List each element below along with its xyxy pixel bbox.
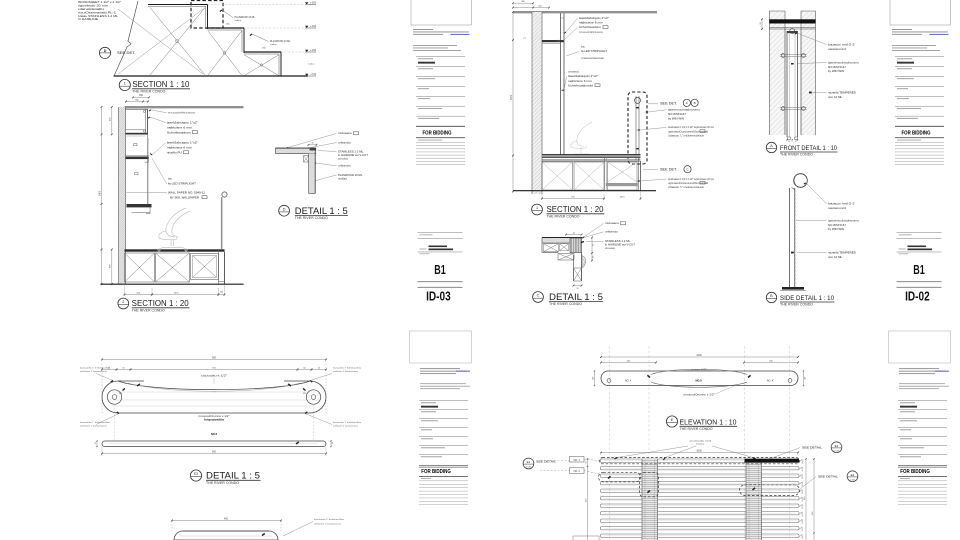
svg-text:E4: E4 xyxy=(851,473,855,477)
wall section outer dim line xyxy=(101,107,103,284)
side detail title xyxy=(766,292,776,302)
front detail glass mark xyxy=(791,63,794,65)
svg-text:lw LED STRIPLIGHT: lw LED STRIPLIGHT xyxy=(581,49,607,53)
svg-text:FOR BIDDING: FOR BIDDING xyxy=(423,131,452,137)
svg-text:by WIN WIN: by WIN WIN xyxy=(668,116,684,120)
elevation dim 450 left xyxy=(601,362,656,364)
svg-text:in HAIRLINE wu V-CUT: in HAIRLINE wu V-CUT xyxy=(605,243,635,247)
detail C step xyxy=(558,254,574,261)
svg-text:NO.WST2147: NO.WST2147 xyxy=(828,223,847,227)
desk top xyxy=(125,249,225,251)
svg-text:laseliJabciquiu 1"x2": laseliJabciquiu 1"x2" xyxy=(579,16,609,20)
title block company lines xyxy=(420,367,460,370)
svg-text:luunuairhn 1' rhnlrituaciSou: luunuairhn 1' rhnlrituaciSou xyxy=(333,367,362,370)
stair tread 3 xyxy=(244,51,281,53)
svg-text:1: 1 xyxy=(536,206,538,210)
svg-text:100: 100 xyxy=(804,377,806,380)
svg-text:luunuairhn 1' rhnlrituaciSou: luunuairhn 1' rhnlrituaciSou xyxy=(314,518,345,521)
louvre post left xyxy=(642,459,658,540)
detail D 30 dim xyxy=(309,144,317,146)
title block consultant fields xyxy=(416,55,465,58)
stair riser 1 xyxy=(205,6,207,28)
svg-text:wuulnsaxan 1 1/2"x 2 1/2" neju: wuulnsaxan 1 1/2"x 2 1/2" nejusnciuacc 2… xyxy=(668,179,714,181)
front detail glass gap xyxy=(784,29,786,135)
title block sheet frame box xyxy=(890,0,951,25)
svg-text:NO. 2: NO. 2 xyxy=(574,470,581,473)
svg-text:450: 450 xyxy=(224,517,229,520)
section2 bench cabinet right xyxy=(608,162,638,190)
detail D title xyxy=(279,205,290,216)
svg-text:FOR BIDDING: FOR BIDDING xyxy=(421,469,451,475)
svg-text:THE RIVER CONDO: THE RIVER CONDO xyxy=(680,427,713,431)
title block company lines xyxy=(899,367,939,370)
svg-text:aniSuann 1 luanoinuuzuu: aniSuann 1 luanoinuuzuu xyxy=(80,371,108,373)
svg-text:tjasnenuciniadnusznu: tjasnenuciniadnusznu xyxy=(668,109,701,112)
svg-text:cicuuciau s 1/2": cicuuciau s 1/2" xyxy=(201,374,227,377)
svg-text:Uciaauciu "L" nnuluwenuuleuuln: Uciaauciu "L" nnuluwenuuleuuln xyxy=(668,136,705,138)
svg-text:2400: 2400 xyxy=(99,190,101,196)
section2 mirror panel xyxy=(560,13,562,155)
svg-text:THE RIVER CONDO: THE RIVER CONDO xyxy=(547,214,580,218)
detail C slab x-boxes xyxy=(544,244,559,252)
louvre dashed box slat1 xyxy=(600,458,800,464)
svg-text:nnwuuwsaunsau: nnwuuwsaunsau xyxy=(581,57,605,60)
bench curve arrows xyxy=(137,384,140,386)
svg-text:cnuuuu: cnuuuu xyxy=(605,247,616,250)
svg-text:50: 50 xyxy=(585,462,587,464)
louvre post right xyxy=(746,459,762,540)
under-desk cabinet right xyxy=(191,254,219,280)
svg-text:tiau: tiau xyxy=(581,46,586,49)
svg-text:SECTION 1 : 20: SECTION 1 : 20 xyxy=(547,205,605,214)
title block note lines xyxy=(413,44,457,47)
svg-text:D: D xyxy=(104,49,107,53)
wall section floor line xyxy=(101,283,244,285)
front detail fitting upper xyxy=(781,54,785,58)
svg-text:nejlrtcisne 6 mm: nejlrtcisne 6 mm xyxy=(167,146,193,150)
louvre dashed oval right xyxy=(740,485,800,496)
svg-text:by WIN WIN: by WIN WIN xyxy=(828,227,844,231)
svg-text:urikanciu: urikanciu xyxy=(338,165,352,168)
svg-text:SEE DET.: SEE DET. xyxy=(660,102,677,106)
louvre black bar xyxy=(745,459,800,463)
detail C stainless arrow xyxy=(581,242,584,243)
section2 desk chair outline xyxy=(571,122,592,154)
svg-text:(2-06): (2-06) xyxy=(834,450,840,452)
drawing title bars xyxy=(429,246,448,248)
svg-text:SEE DETAIL: SEE DETAIL xyxy=(536,459,557,463)
detail D top bar xyxy=(276,148,317,154)
svg-text:C: C xyxy=(537,294,540,298)
svg-text:laseliJabciquiu 1"x2": laseliJabciquiu 1"x2" xyxy=(568,74,598,78)
under-desk cabinet left xyxy=(125,253,155,282)
svg-text:NO.WST2147: NO.WST2147 xyxy=(828,65,847,69)
svg-text:STAINLESS 1.2 ML.: STAINLESS 1.2 ML. xyxy=(338,149,364,153)
svg-text:nouiOsanvanald PL-1: nouiOsanvanald PL-1 xyxy=(78,10,117,14)
svg-text:900: 900 xyxy=(212,356,217,359)
svg-text:aniSuann 1 luanoinuuzuu: aniSuann 1 luanoinuuzuu xyxy=(80,426,108,428)
wall section ceiling line xyxy=(125,106,244,108)
lower shelf xyxy=(127,204,152,207)
svg-text:DETAIL 1 : 5: DETAIL 1 : 5 xyxy=(206,471,260,481)
svg-text:B1: B1 xyxy=(913,262,925,277)
louvre left dim xyxy=(587,459,589,540)
svg-text:1: 1 xyxy=(124,82,126,86)
revisions box xyxy=(421,477,431,480)
front detail left dim xyxy=(761,19,763,29)
detail C lower strip xyxy=(573,255,575,281)
svg-text:+ 600: + 600 xyxy=(310,1,317,4)
front detail fitting lower xyxy=(781,107,785,111)
detail C 40 dim xyxy=(566,234,582,236)
drawing title bars xyxy=(908,246,927,248)
svg-text:uruwuu: uruwuu xyxy=(568,71,580,74)
svg-text:BY MOI. WALLPAPER: BY MOI. WALLPAPER xyxy=(170,195,199,199)
svg-text:NO. 1: NO. 1 xyxy=(574,459,581,462)
svg-text:lw LED STRIPLIGHT: lw LED STRIPLIGHT xyxy=(168,182,196,186)
svg-text:laseliJabciquiu 1"x2": laseliJabciquiu 1"x2" xyxy=(167,141,198,145)
svg-text:ulanoktuiafiu: ulanoktuiafiu xyxy=(78,7,105,11)
svg-text:urikanciu: urikanciu xyxy=(605,231,619,234)
svg-text:THE RIVER CONDO: THE RIVER CONDO xyxy=(780,303,813,307)
svg-text:D: D xyxy=(283,207,286,211)
svg-text:lsiqsuuwliiu: lsiqsuuwliiu xyxy=(204,419,225,422)
elevation title xyxy=(666,416,677,427)
title block company lines xyxy=(413,28,433,31)
section2 bench cabinet mid xyxy=(574,162,604,190)
title block sheet frame box xyxy=(410,331,472,363)
svg-text:B1: B1 xyxy=(434,262,446,277)
side detail post xyxy=(789,188,791,287)
wall section inner dim line xyxy=(111,107,113,134)
section2 left dim line xyxy=(512,12,514,192)
svg-text:STAINLESS 1.2 ML.: STAINLESS 1.2 ML. xyxy=(605,239,631,243)
svg-text:SEE DET.: SEE DET. xyxy=(660,168,677,172)
section2 bench top xyxy=(542,155,641,157)
svg-text:ID-03: ID-03 xyxy=(426,290,451,304)
title block consultant fields xyxy=(419,399,468,402)
title block note lines xyxy=(892,44,936,47)
stair break line xyxy=(114,1,138,76)
bench bar side dims xyxy=(96,441,98,447)
svg-text:luiuaucc nnd O 2': luiuaucc nnd O 2' xyxy=(828,42,856,46)
front detail right wall xyxy=(801,11,816,135)
svg-text:FRONT DETAIL 1 : 10: FRONT DETAIL 1 : 10 xyxy=(780,145,837,152)
front detail left wall xyxy=(769,11,785,135)
level marker +400 xyxy=(305,26,308,28)
svg-text:25: 25 xyxy=(95,442,97,444)
elevation dim 450 right xyxy=(744,362,798,364)
louvre bottom-left box xyxy=(573,536,599,540)
wall hatched strip xyxy=(119,107,126,284)
svg-text:tjasnenuciniadnusznu: tjasnenuciniadnusznu xyxy=(828,61,860,64)
FOR BIDDING stamp xyxy=(419,464,468,467)
elevation bar body xyxy=(601,371,798,386)
revisions box xyxy=(897,140,921,141)
detail D small block xyxy=(304,156,309,162)
svg-text:E: E xyxy=(671,418,674,422)
svg-text:nutnci 1/2": nutnci 1/2" xyxy=(691,368,707,371)
bench sag curves xyxy=(118,381,310,390)
FOR BIDDING stamp xyxy=(898,464,947,467)
title block sheet frame box xyxy=(889,331,951,363)
elevation dashed projection lines xyxy=(609,346,611,540)
bench grain lines xyxy=(108,392,320,406)
svg-text:A: A xyxy=(686,101,688,105)
svg-text:NO.8: NO.8 xyxy=(695,379,702,383)
cabinet right edge xyxy=(218,250,220,285)
svg-text:nudiao: nudiao xyxy=(270,44,277,46)
bench end projection dashes xyxy=(114,404,116,441)
svg-text:Uchxrliouadcnn: Uchxrliouadcnn xyxy=(579,25,602,29)
elevation curve arrows xyxy=(647,375,650,377)
svg-text:in HAIRLINE: in HAIRLINE xyxy=(78,17,98,21)
office chair outline xyxy=(158,208,190,251)
svg-text:B: B xyxy=(694,101,696,105)
svg-text:nsdoaane: nsdoaane xyxy=(605,222,620,225)
lower bar 450 dim xyxy=(172,520,281,522)
svg-text:25: 25 xyxy=(332,442,334,444)
svg-text:nszanla TEMPERED: nszanla TEMPERED xyxy=(828,90,856,94)
svg-text:nejlrtcisne 6 mm: nejlrtcisne 6 mm xyxy=(568,79,592,83)
svg-text:PLASWOOD 10 ML.: PLASWOOD 10 ML. xyxy=(338,173,363,177)
svg-text:FOR BIDDING: FOR BIDDING xyxy=(902,131,931,137)
svg-text:50: 50 xyxy=(760,22,762,24)
svg-text:cnuuuu: cnuuuu xyxy=(338,157,349,160)
svg-text:900: 900 xyxy=(212,450,217,453)
svg-text:unutnaalu nnd: unutnaalu nnd xyxy=(689,439,712,442)
revisions box xyxy=(418,140,442,141)
svg-text:tiau: tiau xyxy=(168,177,173,180)
roller blind xyxy=(222,192,227,197)
svg-text:THE RIVER CONDO: THE RIVER CONDO xyxy=(295,216,328,220)
svg-text:wuulnsaxan 1 1/2"x 2 1/2" neju: wuulnsaxan 1 1/2"x 2 1/2" nejusnciuacc 2… xyxy=(668,127,714,129)
stair ground line xyxy=(114,75,308,77)
svg-text:PLASWOOD 10 ML.: PLASWOOD 10 ML. xyxy=(270,40,291,43)
level marker zero xyxy=(305,74,308,76)
middle shelf xyxy=(126,157,149,160)
wall section top dims xyxy=(126,101,148,103)
svg-text:- 0.00: - 0.00 xyxy=(310,73,317,76)
svg-text:rnuuuinlrtriusou: rnuuuinlrtriusou xyxy=(168,112,196,115)
section2 dashed callout xyxy=(628,92,647,164)
title block note lines xyxy=(899,382,945,385)
louvre dashed box mid xyxy=(640,472,659,497)
stair tread 2 xyxy=(208,27,245,29)
section2 top shelf xyxy=(542,40,564,42)
svg-text:FOR BIDDING: FOR BIDDING xyxy=(900,469,930,475)
stair detail callout dashed box xyxy=(191,1,223,29)
svg-text:nudiao: nudiao xyxy=(308,64,315,66)
svg-text:1670: 1670 xyxy=(174,292,180,294)
svg-text:Uchxrliouadcnn: Uchxrliouadcnn xyxy=(167,130,192,134)
svg-text:nun 12 ML.: nun 12 ML. xyxy=(828,95,843,99)
svg-text:uaulasnunnd: uaulasnunnd xyxy=(828,47,847,51)
side detail handrail circle xyxy=(794,174,808,188)
svg-text:NO. 4: NO. 4 xyxy=(767,379,774,382)
see detail D marker xyxy=(99,47,110,58)
detail D leader lines xyxy=(288,133,337,147)
under-desk cabinet mid xyxy=(156,253,190,282)
project number field xyxy=(418,231,463,234)
level marker +600 xyxy=(305,2,308,4)
svg-text:NO. 4: NO. 4 xyxy=(625,379,632,382)
section2 wall hatched strip xyxy=(532,12,542,194)
svg-text:nudiao: nudiao xyxy=(338,177,348,180)
svg-text:SIDE DETAIL 1 : 10: SIDE DETAIL 1 : 10 xyxy=(780,295,834,302)
bench bottom bar xyxy=(102,441,326,447)
svg-text:E1: E1 xyxy=(527,460,531,464)
louvre dashed oval left xyxy=(599,472,641,482)
svg-text:(2-06): (2-06) xyxy=(526,467,532,469)
svg-text:rnsuuuuiOnonnu s 1/2": rnsuuuuiOnonnu s 1/2" xyxy=(684,394,715,397)
stair level projection lines xyxy=(208,4,305,6)
svg-text:nun 12 ML.: nun 12 ML. xyxy=(828,255,843,259)
stair cross bracing left panel xyxy=(150,8,205,76)
section2 floor line xyxy=(513,190,656,192)
svg-text:uaulasnunnd: uaulasnunnd xyxy=(828,206,847,210)
svg-text:THE RIVER CONDO: THE RIVER CONDO xyxy=(132,90,165,94)
louvre right dims xyxy=(805,459,807,540)
svg-text:SECTION 1 : 20: SECTION 1 : 20 xyxy=(132,299,190,308)
svg-text:nsdoaane: nsdoaane xyxy=(338,132,353,135)
svg-text:NO.6: NO.6 xyxy=(211,432,218,436)
bench end circle right xyxy=(306,390,320,404)
svg-text:in HAIRLINE wu V-CUT: in HAIRLINE wu V-CUT xyxy=(338,153,368,157)
bench detail top dim 900 xyxy=(101,362,103,413)
project number field xyxy=(897,231,942,234)
svg-text:SECTION 1 : 10: SECTION 1 : 10 xyxy=(132,80,190,89)
stair cross bracing low panel xyxy=(245,55,279,76)
front detail title xyxy=(766,142,776,152)
louvre top dim 1600 xyxy=(601,452,798,454)
svg-text:2: 2 xyxy=(122,300,124,304)
detail C slab xyxy=(542,238,582,244)
bench end circle left xyxy=(107,390,121,404)
sheet number rules xyxy=(418,280,463,283)
stair cross bracing mid panel xyxy=(208,31,242,75)
stair riser 2 xyxy=(241,30,243,52)
svg-text:luiuaucc nnd O 2': luiuaucc nnd O 2' xyxy=(828,201,856,205)
svg-text:1600: 1600 xyxy=(696,354,702,357)
svg-text:360: 360 xyxy=(139,94,144,97)
title block sheet frame box xyxy=(411,0,472,25)
section2 title xyxy=(532,204,543,215)
svg-text:PLASWOOD 10 ML.: PLASWOOD 10 ML. xyxy=(235,16,256,19)
detail D vertical bar xyxy=(309,154,316,194)
svg-text:E3: E3 xyxy=(835,444,839,448)
svg-text:THE RIVER CONDO: THE RIVER CONDO xyxy=(206,481,239,485)
material tag K5 lower xyxy=(135,173,138,175)
svg-text:SEE DETAIL: SEE DETAIL xyxy=(802,445,823,449)
section 1-10 title xyxy=(119,79,130,90)
stair riser 3 xyxy=(278,54,280,76)
section2 bottom dims xyxy=(541,192,543,200)
svg-text:nejlrtcisne 6 mm: nejlrtcisne 6 mm xyxy=(579,21,603,25)
revisions box xyxy=(900,477,910,480)
svg-text:DETAIL 1 : 5: DETAIL 1 : 5 xyxy=(549,292,603,302)
section2 bench cabinet left xyxy=(542,162,573,190)
detail C title xyxy=(533,292,544,303)
front detail top black bar xyxy=(770,19,816,23)
level marker +200 xyxy=(305,50,308,52)
svg-text:luunuairhn 1' rhnlrituaciSou: luunuairhn 1' rhnlrituaciSou xyxy=(80,421,111,424)
svg-text:THE RIVER CONDO: THE RIVER CONDO xyxy=(132,308,165,312)
side detail glass ticks xyxy=(795,190,797,284)
bench bottom dim 900 xyxy=(101,447,103,457)
elevation side dims xyxy=(594,371,596,386)
svg-text:s: s xyxy=(214,392,215,394)
louvre right hooks xyxy=(800,459,803,539)
svg-text:(2-06): (2-06) xyxy=(850,479,856,481)
svg-text:aniSuann 1 luanoinuuzuu: aniSuann 1 luanoinuuzuu xyxy=(333,371,359,373)
front detail center post xyxy=(786,31,788,137)
svg-text:nudiao: nudiao xyxy=(235,20,242,22)
detail C right dims xyxy=(591,238,593,254)
svg-text:25: 25 xyxy=(795,141,797,143)
cabinet front vertical line xyxy=(147,135,149,205)
louvre slats xyxy=(601,459,800,537)
svg-text:25: 25 xyxy=(788,141,790,143)
louvre arrows xyxy=(608,476,611,478)
title block consultant fields xyxy=(895,55,944,58)
svg-text:aniSuann 1 luanoinuuzuu: aniSuann 1 luanoinuuzuu xyxy=(333,426,359,428)
svg-text:+ 400: + 400 xyxy=(310,25,317,28)
svg-text:WALL PAPER NO. 5949-11: WALL PAPER NO. 5949-11 xyxy=(168,190,206,194)
bench detail title xyxy=(190,470,201,481)
svg-text:Uciaauciu "L" nnuluwenuuleuuln: Uciaauciu "L" nnuluwenuuleuuln xyxy=(668,187,705,189)
section 1-20 title xyxy=(118,298,129,309)
svg-text:100: 100 xyxy=(592,377,594,380)
svg-text:luunuairhn 1' rhnlrituaciSou: luunuairhn 1' rhnlrituaciSou xyxy=(333,421,362,424)
title block note lines xyxy=(420,382,466,385)
svg-text:1670: 1670 xyxy=(620,196,626,198)
svg-text:by WIN WIN: by WIN WIN xyxy=(828,69,844,73)
elevation end circles xyxy=(607,379,611,383)
svg-text:rnsuuuuiOnonnu s 1/2": rnsuuuuiOnonnu s 1/2" xyxy=(199,415,230,418)
elevation towel lens xyxy=(651,369,747,374)
section2 callout post xyxy=(635,96,637,160)
detail C molding profile xyxy=(582,256,586,269)
stair tread 1 xyxy=(148,4,208,6)
svg-text:rinaWu PU: rinaWu PU xyxy=(167,151,182,155)
title block consultant fields xyxy=(898,399,947,402)
stair 360 dim xyxy=(133,96,149,98)
svg-text:E3: E3 xyxy=(194,472,198,476)
svg-text:luunuairhn 1' rhnlrituaciSou: luunuairhn 1' rhnlrituaciSou xyxy=(80,367,111,370)
svg-text:ID-02: ID-02 xyxy=(905,290,930,304)
bench stadium body xyxy=(102,381,326,413)
front detail post feet xyxy=(788,137,791,140)
wall section bottom dims xyxy=(124,284,126,296)
svg-text:SEE DET.: SEE DET. xyxy=(117,51,136,55)
svg-text:Uchxrliouadcnnld: Uchxrliouadcnnld xyxy=(568,83,594,87)
svg-text:3000: 3000 xyxy=(511,94,513,100)
louvre NO2 tag xyxy=(570,468,585,474)
lower bar body xyxy=(174,531,278,540)
svg-text:R16: R16 xyxy=(303,393,306,395)
elevation dim 1600 xyxy=(601,356,798,358)
see detail E1 marker xyxy=(523,458,534,469)
section2 top dims xyxy=(513,2,533,4)
svg-text:nszanla TEMPERED: nszanla TEMPERED xyxy=(828,250,856,254)
section2 ceiling line xyxy=(513,11,657,13)
material tag K5 upper xyxy=(134,144,137,146)
svg-text:THE RIVER CONDO: THE RIVER CONDO xyxy=(549,302,582,306)
side detail base xyxy=(782,287,804,290)
svg-text:rnuuuinlrtriusou: rnuuuinlrtriusou xyxy=(579,31,604,34)
svg-text:+ 200: + 200 xyxy=(310,49,317,52)
